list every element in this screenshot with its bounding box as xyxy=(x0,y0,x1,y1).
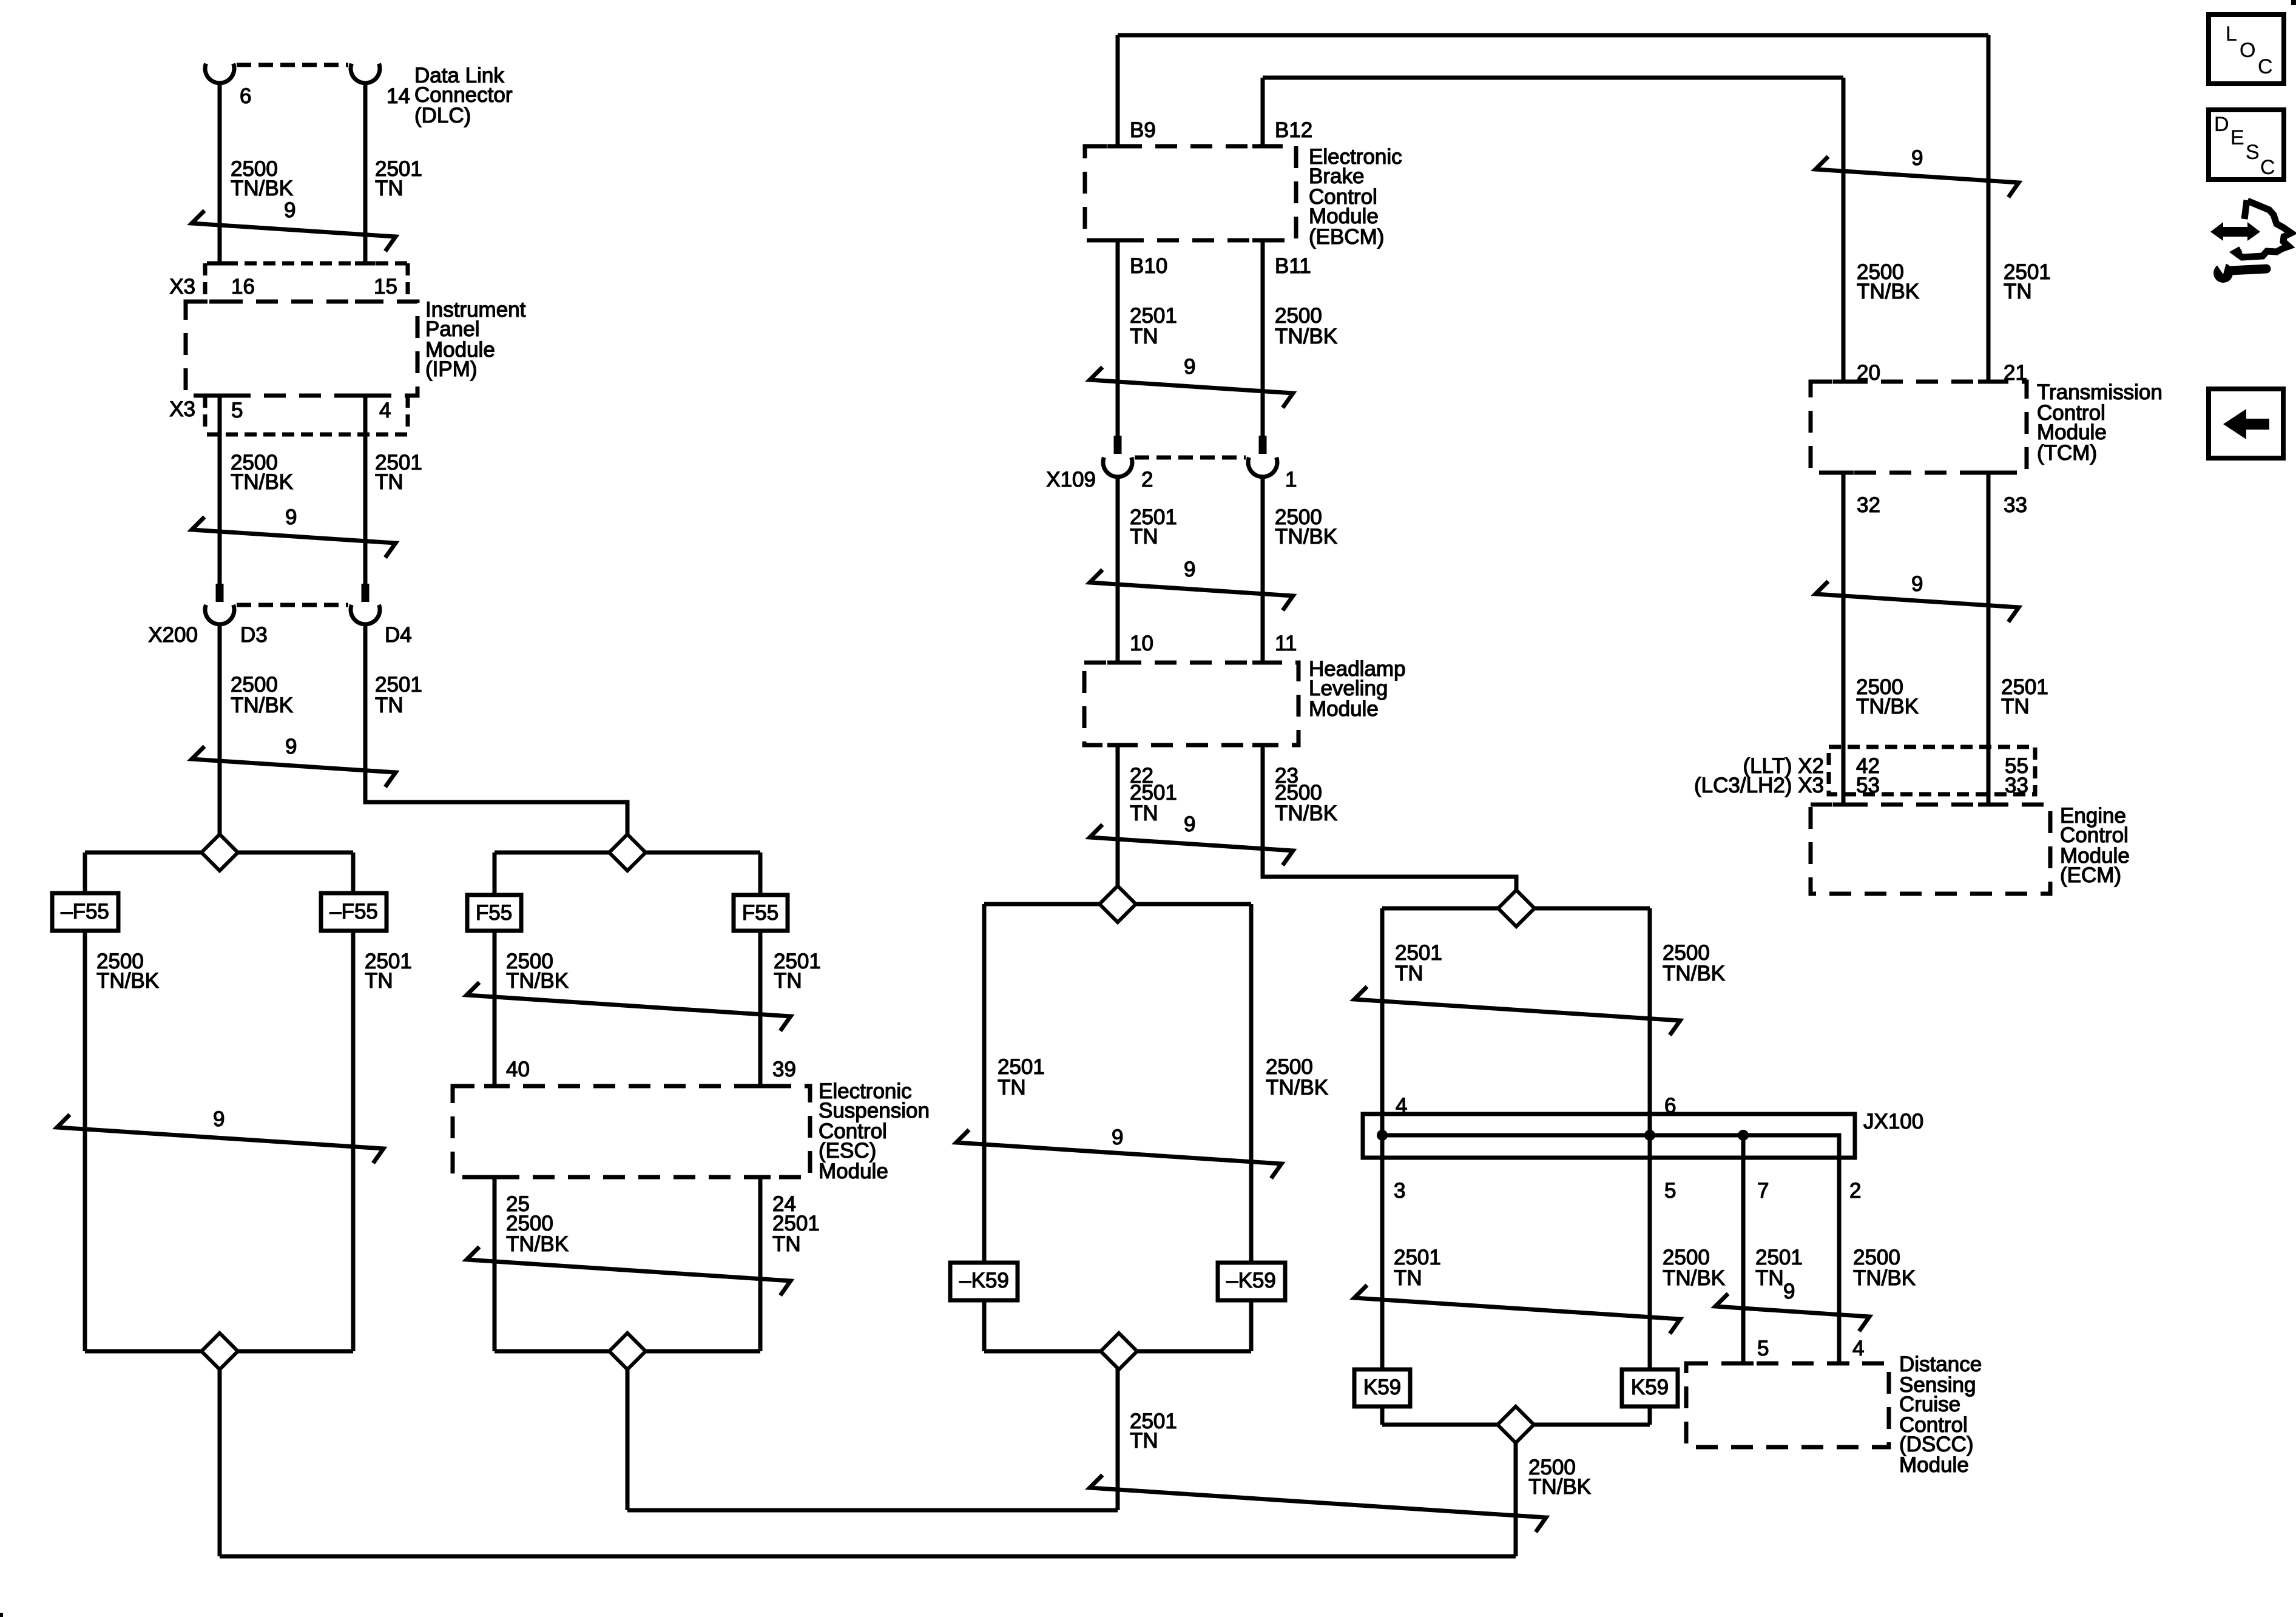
X200 connector dashed line xyxy=(237,603,348,607)
splice diamond loop3 top xyxy=(1099,886,1136,922)
wire 2500 TN/BK X109-1 to Headlamp 11 xyxy=(1261,477,1265,663)
wire entry tick xyxy=(355,394,376,398)
X109 connector dashed line xyxy=(1135,456,1246,460)
svg-text:X3: X3 xyxy=(169,275,195,299)
ECM connector strip xyxy=(1829,747,2035,794)
svg-text:5: 5 xyxy=(231,399,243,422)
svg-text:D3: D3 xyxy=(240,623,268,647)
fuse box -F55 (left) xyxy=(52,893,118,931)
svg-text:X109: X109 xyxy=(1046,468,1096,491)
svg-text:O: O xyxy=(2240,39,2255,62)
module box: Headlamp Leveling Module xyxy=(1084,663,1298,745)
svg-text:TN: TN xyxy=(365,969,393,993)
twisted pair symbol S11 xyxy=(1090,367,1293,408)
loop2 left wire upper xyxy=(493,852,497,895)
wire 2500 TN/BK DLC pin6 to IPM X3-16 xyxy=(218,83,222,263)
svg-text:10: 10 xyxy=(1130,632,1153,655)
wire tick at X3-16 xyxy=(209,262,230,266)
svg-text:9: 9 xyxy=(1911,572,1923,596)
splice diamond loop4 bottom xyxy=(1497,1406,1534,1443)
svg-text:TN: TN xyxy=(1755,1266,1784,1290)
svg-text:TN: TN xyxy=(998,1076,1026,1099)
svg-text:9: 9 xyxy=(285,735,297,758)
relay box -K59 (left) xyxy=(950,1263,1018,1300)
svg-text:TN: TN xyxy=(375,177,403,200)
twisted pair symbol S2 xyxy=(192,517,396,558)
wire entry tick xyxy=(209,394,230,398)
X200 D3 male pin xyxy=(216,584,224,602)
loop2 right wire to ESC pin39 2501 TN xyxy=(758,931,763,1086)
loop1 bottom wire xyxy=(85,1349,353,1354)
svg-text:–F55: –F55 xyxy=(329,900,378,923)
svg-text:TN: TN xyxy=(375,470,403,494)
svg-text:TN/BK: TN/BK xyxy=(1856,695,1919,718)
svg-text:B11: B11 xyxy=(1275,254,1311,278)
wire 2500 TN/BK loop1 splice to bottom bus xyxy=(218,1351,222,1556)
wire entry tick xyxy=(1833,380,1854,384)
svg-text:9: 9 xyxy=(1184,812,1195,836)
svg-text:TN/BK: TN/BK xyxy=(96,969,159,993)
svg-text:1: 1 xyxy=(1285,468,1297,491)
svg-text:TN: TN xyxy=(1130,325,1158,348)
connector: Data Link Connector (DLC) cavity 6 xyxy=(205,64,234,83)
connector X200 cavity D3 xyxy=(205,605,234,624)
wire 2501 TN X200 D4 to loop2 splice xyxy=(365,624,627,834)
connector X109 cavity 2 xyxy=(1103,457,1132,477)
wire entry tick xyxy=(1107,661,1128,665)
svg-text:D4: D4 xyxy=(385,623,412,647)
loop1 right wire upper xyxy=(351,852,356,893)
junction block JX100 outer xyxy=(1363,1114,1855,1158)
svg-text:TN/BK: TN/BK xyxy=(1663,962,1725,985)
connector X109 cavity 1 xyxy=(1248,457,1277,477)
wire entry tick xyxy=(750,1175,771,1180)
IPM X3 connector strip top dotted line xyxy=(207,262,410,266)
wire entry tick xyxy=(1833,803,1854,807)
fuse box F55 (right) xyxy=(734,895,788,931)
twisted pair symbol S13 xyxy=(1090,825,1293,865)
loop2 left wire lower xyxy=(493,1177,497,1351)
svg-text:TN/BK: TN/BK xyxy=(1528,1475,1591,1499)
DLC connector dashed line xyxy=(237,63,348,67)
svg-text:11: 11 xyxy=(1275,632,1297,655)
wire entry tick xyxy=(209,300,230,304)
svg-text:TN: TN xyxy=(774,969,802,993)
loop2 right wire lower xyxy=(758,1177,763,1351)
svg-text:S: S xyxy=(2246,141,2260,164)
svg-text:33: 33 xyxy=(2005,774,2028,797)
svg-text:TN/BK: TN/BK xyxy=(1275,802,1337,825)
icon: double arrow with schematic outline and wrench xyxy=(2210,222,2260,241)
wire EBCM B9 riser xyxy=(1116,35,1120,146)
X200 D4 male pin xyxy=(362,584,370,602)
svg-text:TN/BK: TN/BK xyxy=(1857,280,1919,303)
svg-text:TN: TN xyxy=(1395,962,1423,985)
svg-text:TN/BK: TN/BK xyxy=(1275,325,1337,348)
loop1 right wire lower 2501 TN xyxy=(351,931,356,1351)
svg-text:Module: Module xyxy=(1309,697,1379,721)
icon: back arrow box xyxy=(2209,389,2283,458)
twisted pair symbol S14 xyxy=(1815,157,2019,197)
wire 2501 TN TCM 33 to ECM xyxy=(1987,473,1991,805)
loop2 right wire upper xyxy=(758,852,763,895)
svg-text:TN/BK: TN/BK xyxy=(231,177,293,200)
svg-text:4: 4 xyxy=(1852,1337,1864,1360)
twisted pair symbol S5 xyxy=(467,982,791,1031)
svg-text:33: 33 xyxy=(2004,493,2027,517)
svg-text:3: 3 xyxy=(1394,1179,1405,1203)
loop2 left wire to ESC pin40 2500 TN/BK xyxy=(493,931,497,1086)
IPM lower X3 strip left dotted edge xyxy=(203,396,208,432)
svg-text:TN: TN xyxy=(2004,280,2032,303)
loop2 bottom wire xyxy=(495,1349,760,1354)
svg-text:9: 9 xyxy=(1184,355,1195,379)
twisted pair symbol S12 xyxy=(1090,570,1293,610)
loop3 bottom wire xyxy=(984,1349,1251,1354)
wire entry tick xyxy=(1252,743,1273,748)
wire 2500 TN/BK B11 to X109-1 xyxy=(1261,240,1265,436)
svg-text:B10: B10 xyxy=(1130,254,1167,278)
loop4 left wire lower xyxy=(1380,1406,1385,1425)
svg-text:TN/BK: TN/BK xyxy=(231,694,293,717)
wire entry tick xyxy=(1733,1362,1754,1366)
wire entry tick xyxy=(1978,803,1999,807)
svg-text:K59: K59 xyxy=(1631,1376,1669,1399)
IPM lower X3 strip bottom dotted line xyxy=(207,433,410,437)
wire EBCM B12 riser xyxy=(1261,78,1265,146)
svg-text:9: 9 xyxy=(1184,558,1195,581)
loop3 left wire 2501 TN xyxy=(982,904,987,1263)
X109 pin 1 male pin xyxy=(1259,436,1267,454)
twisted pair symbol S16 (bottom) xyxy=(1090,1475,1546,1532)
svg-text:Module: Module xyxy=(819,1160,888,1183)
twisted pair symbol S6 xyxy=(467,1247,791,1295)
svg-text:16: 16 xyxy=(231,275,255,299)
svg-text:–K59: –K59 xyxy=(1226,1269,1276,1292)
loop4 right wire 2500 TN/BK xyxy=(1648,908,1652,1369)
junction dot JX100 pin4/3 xyxy=(1377,1130,1388,1141)
wire 2501 TN down to TCM pin 21 xyxy=(1987,35,1991,382)
wire entry tick xyxy=(750,1084,771,1089)
svg-text:B12: B12 xyxy=(1275,118,1312,142)
splice diamond loop3 bottom xyxy=(1101,1333,1137,1369)
splice diamond loop2 bottom xyxy=(609,1333,646,1369)
svg-text:9: 9 xyxy=(1783,1280,1795,1303)
wire entry tick xyxy=(1107,144,1128,149)
loop2 top wire xyxy=(495,851,760,855)
svg-text:7: 7 xyxy=(1757,1179,1769,1203)
IPM lower X3 strip right dotted edge xyxy=(406,396,410,432)
twisted pair symbol S15 xyxy=(1815,581,2019,622)
svg-text:–F55: –F55 xyxy=(61,900,109,923)
wire entry tick xyxy=(1829,1362,1849,1366)
wire 2501 TN loop2 splice down xyxy=(626,1351,630,1510)
loop3 top wire xyxy=(984,902,1251,906)
wire 2500 TN/BK EBCM B12 to TCM 20 xyxy=(1263,76,1843,80)
svg-text:TN: TN xyxy=(1394,1266,1422,1290)
wire 2500 TN/BK down to TCM pin 20 xyxy=(1842,78,1846,382)
module box: Instrument Panel Module (IPM) xyxy=(186,302,417,396)
wire 2501 TN loop3 splice down to bus xyxy=(1116,1351,1120,1510)
svg-text:9: 9 xyxy=(1112,1126,1123,1149)
svg-text:40: 40 xyxy=(506,1058,530,1081)
svg-text:TN/BK: TN/BK xyxy=(1663,1266,1725,1290)
svg-text:E: E xyxy=(2230,126,2244,149)
loop1 left wire upper xyxy=(83,852,87,893)
wire entry tick xyxy=(1107,743,1128,748)
svg-text:32: 32 xyxy=(1857,493,1880,517)
svg-text:9: 9 xyxy=(1911,146,1923,170)
IPM X3 strip left dotted edge xyxy=(203,263,208,300)
svg-text:14: 14 xyxy=(387,84,410,108)
svg-text:6: 6 xyxy=(240,84,251,108)
fuse box F55 (left) xyxy=(467,895,521,931)
svg-text:X200: X200 xyxy=(148,623,198,647)
loop1 top wire xyxy=(85,851,353,855)
IPM X3 strip right dotted edge xyxy=(406,263,410,300)
svg-text:D: D xyxy=(2214,113,2229,136)
wire entry tick xyxy=(355,300,376,304)
svg-text:2: 2 xyxy=(1141,468,1153,491)
loop4 top wire xyxy=(1382,906,1650,911)
wire 2501 TN IPM X3-4 to X200 D4 xyxy=(363,396,368,584)
splice diamond loop1 bottom xyxy=(201,1333,238,1369)
wire entry tick xyxy=(484,1175,505,1180)
svg-text:F55: F55 xyxy=(742,901,778,925)
svg-text:–K59: –K59 xyxy=(959,1269,1009,1292)
svg-text:(LC3/LH2) X3: (LC3/LH2) X3 xyxy=(1694,774,1824,797)
wire entry tick xyxy=(1252,144,1273,149)
loop4 left wire 2501 TN xyxy=(1380,908,1385,1369)
wire entry tick xyxy=(1252,238,1273,243)
loop3 left wire lower xyxy=(982,1300,987,1351)
wire 2500 TN/BK JX100-2 to DSCC 4 xyxy=(1837,1158,1842,1363)
loop4 right wire lower xyxy=(1648,1406,1652,1425)
stray mark top right xyxy=(2291,0,2296,5)
svg-text:TN: TN xyxy=(375,694,403,717)
svg-text:TN/BK: TN/BK xyxy=(506,969,569,993)
svg-text:TN/BK: TN/BK xyxy=(231,470,293,494)
twisted pair symbol S8 xyxy=(1354,987,1680,1035)
svg-text:(IPM): (IPM) xyxy=(425,357,478,381)
fuse box -F55 (right) xyxy=(321,893,387,931)
svg-text:2: 2 xyxy=(1849,1179,1861,1203)
svg-text:L: L xyxy=(2226,22,2237,46)
svg-text:TN: TN xyxy=(2001,695,2030,718)
wire 2501 TN JX100-7 to DSCC 5 xyxy=(1741,1135,1746,1363)
relay box -K59 (right) xyxy=(1218,1263,1285,1300)
wire 2500 TN/BK TCM 32 to ECM xyxy=(1842,473,1846,805)
module box: Electronic Suspension Control (ESC) Module xyxy=(453,1086,810,1177)
twisted pair symbol S4 xyxy=(57,1115,383,1163)
svg-text:53: 53 xyxy=(1856,774,1880,797)
svg-text:(DLC): (DLC) xyxy=(414,104,471,127)
wire entry tick xyxy=(484,1084,505,1089)
loop1 left wire lower 2500 TN/BK xyxy=(83,931,87,1351)
svg-text:5: 5 xyxy=(1664,1179,1676,1203)
module box: Electronic Brake Control Module (EBCM) xyxy=(1085,146,1296,240)
svg-text:TN: TN xyxy=(1130,525,1158,549)
wire 2501 TN X109-2 to Headlamp 10 xyxy=(1116,477,1120,663)
svg-text:(EBCM): (EBCM) xyxy=(1309,225,1384,249)
svg-text:TN: TN xyxy=(772,1232,801,1256)
wire entry tick xyxy=(1978,471,1999,475)
svg-text:TN/BK: TN/BK xyxy=(506,1232,569,1256)
wire 2500 TN/BK X200 D3 down to splice xyxy=(218,624,222,834)
wire entry tick xyxy=(1252,661,1273,665)
wire entry tick xyxy=(1833,471,1854,475)
svg-text:TN/BK: TN/BK xyxy=(1853,1266,1916,1290)
icon: DESC box xyxy=(2209,110,2284,180)
junction dot JX100 pin6/5 xyxy=(1644,1130,1655,1141)
svg-text:9: 9 xyxy=(284,198,295,222)
wire 2501 TN Headlamp 22 to loop3 splice xyxy=(1116,745,1120,886)
loop3 right wire lower xyxy=(1249,1300,1254,1351)
wire 2500 TN/BK loop4 splice to bottom bus xyxy=(1514,1425,1518,1556)
svg-text:TN/BK: TN/BK xyxy=(1266,1076,1328,1099)
relay box K59 (left) xyxy=(1354,1369,1410,1406)
splice diamond loop4 top xyxy=(1498,890,1535,927)
svg-text:X3: X3 xyxy=(169,397,195,421)
splice diamond loop2 top xyxy=(609,834,646,871)
connector X200 cavity D4 xyxy=(351,605,380,624)
wire 2500 TN/BK Headlamp 23 to loop4 splice xyxy=(1263,745,1516,890)
relay box K59 (right) xyxy=(1622,1369,1678,1406)
loop3 right wire 2500 TN/BK xyxy=(1249,904,1254,1263)
connector: Data Link Connector (DLC) cavity 14 xyxy=(351,64,380,83)
wire entry tick xyxy=(1107,238,1128,243)
svg-text:K59: K59 xyxy=(1363,1376,1401,1399)
module box: Distance Sensing Cruise Control (DSCC) Module xyxy=(1686,1363,1889,1447)
icon: LOC box xyxy=(2209,15,2284,84)
splice diamond loop1 top xyxy=(201,834,238,871)
junction dot JX100 pin7 xyxy=(1738,1130,1749,1141)
X109 pin 2 male pin xyxy=(1114,436,1122,454)
svg-text:5: 5 xyxy=(1757,1337,1769,1360)
loop4 bottom wire xyxy=(1382,1423,1650,1427)
wire 2500 TN/BK bottom bus xyxy=(220,1555,1516,1559)
wire 2501 TN top bus EBCM B9 to TCM 21 xyxy=(1118,33,1988,38)
junction block JX100 internal bus xyxy=(1377,1135,1839,1158)
svg-text:TN/BK: TN/BK xyxy=(1275,525,1337,549)
wire 2501 TN DLC pin14 to IPM X3-15 xyxy=(363,83,368,263)
wire tick at X3-15 xyxy=(355,262,376,266)
svg-text:JX100: JX100 xyxy=(1863,1110,1923,1133)
svg-text:39: 39 xyxy=(772,1058,796,1081)
svg-text:9: 9 xyxy=(213,1107,225,1131)
module box: Transmission Control Module (TCM) xyxy=(1811,382,2027,473)
twisted pair symbol S10 xyxy=(1715,1294,1869,1331)
svg-text:B9: B9 xyxy=(1130,118,1156,142)
twisted pair symbol S9 xyxy=(1354,1285,1680,1334)
svg-text:F55: F55 xyxy=(476,901,512,925)
wire 2500 TN/BK IPM X3-5 to X200 D3 xyxy=(218,396,222,584)
stray mark bottom left xyxy=(0,1613,3,1617)
wire 2501 TN bottom horizontal xyxy=(627,1508,1118,1513)
twisted pair symbol S1 xyxy=(192,211,396,251)
wire entry tick xyxy=(1978,380,1999,384)
svg-text:TN: TN xyxy=(1130,1429,1158,1453)
svg-text:(TCM): (TCM) xyxy=(2037,441,2097,465)
svg-text:15: 15 xyxy=(374,275,397,299)
svg-text:(ECM): (ECM) xyxy=(2060,863,2121,887)
svg-text:4: 4 xyxy=(379,399,391,422)
wire 2501 TN B10 to X109-2 xyxy=(1116,240,1120,436)
svg-text:TN: TN xyxy=(1130,802,1158,825)
twisted pair symbol S3 xyxy=(192,746,396,787)
svg-text:Module: Module xyxy=(1899,1453,1969,1477)
twisted pair symbol S7 xyxy=(956,1130,1281,1178)
svg-text:C: C xyxy=(2260,156,2275,179)
module box: Engine Control Module (ECM) xyxy=(1811,805,2050,894)
svg-text:9: 9 xyxy=(285,505,297,529)
svg-text:C: C xyxy=(2258,55,2273,78)
